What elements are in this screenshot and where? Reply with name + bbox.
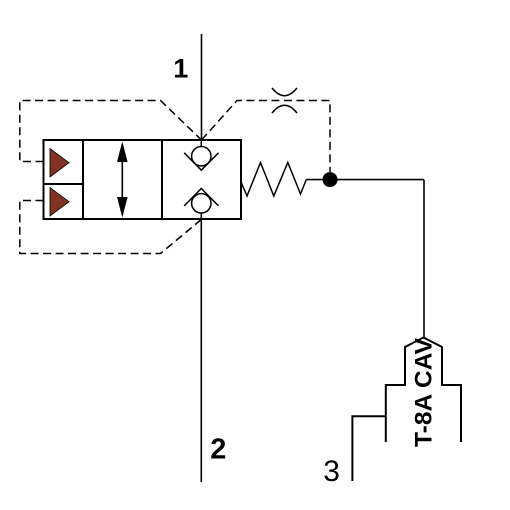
wire spring to node (306, 179, 330, 181)
svg-text:2: 2 (210, 434, 226, 466)
flow arrow head up (117, 142, 128, 163)
svg-text:1: 1 (173, 53, 188, 83)
cavity port 3 stub (352, 416, 385, 481)
spring (241, 163, 306, 197)
pilot triangle upper (50, 149, 69, 178)
pilot line dashed upper left (20, 101, 202, 162)
check valve lower ball (192, 194, 211, 213)
wire port 2 (200, 219, 202, 482)
check valve upper stem (200, 140, 202, 147)
check valve lower seat (184, 189, 218, 206)
orifice lower arc (272, 105, 297, 113)
valve divider left (82, 140, 84, 219)
svg-text:T-8A CAV: T-8A CAV (411, 337, 438, 447)
flow arrow shaft (121, 144, 123, 215)
pilot line dashed lower left (20, 201, 202, 254)
wire node to corner (330, 179, 424, 181)
pilot box divider (44, 183, 84, 185)
orifice upper arc (272, 88, 297, 96)
wire port 1 (201, 34, 203, 140)
check valve lower stem (200, 213, 202, 220)
valve divider right (161, 140, 163, 219)
valve body outline (44, 140, 242, 219)
wire down to cavity (423, 180, 425, 338)
cavity outline left (386, 338, 424, 443)
pilot line dashed right (202, 101, 331, 173)
cavity outline right (424, 338, 462, 443)
pilot triangle lower (50, 188, 69, 217)
svg-text:3: 3 (323, 455, 340, 488)
junction node (323, 172, 338, 187)
check valve upper seat (184, 153, 218, 170)
check valve upper ball (192, 147, 211, 166)
flow arrow head down (117, 197, 128, 218)
